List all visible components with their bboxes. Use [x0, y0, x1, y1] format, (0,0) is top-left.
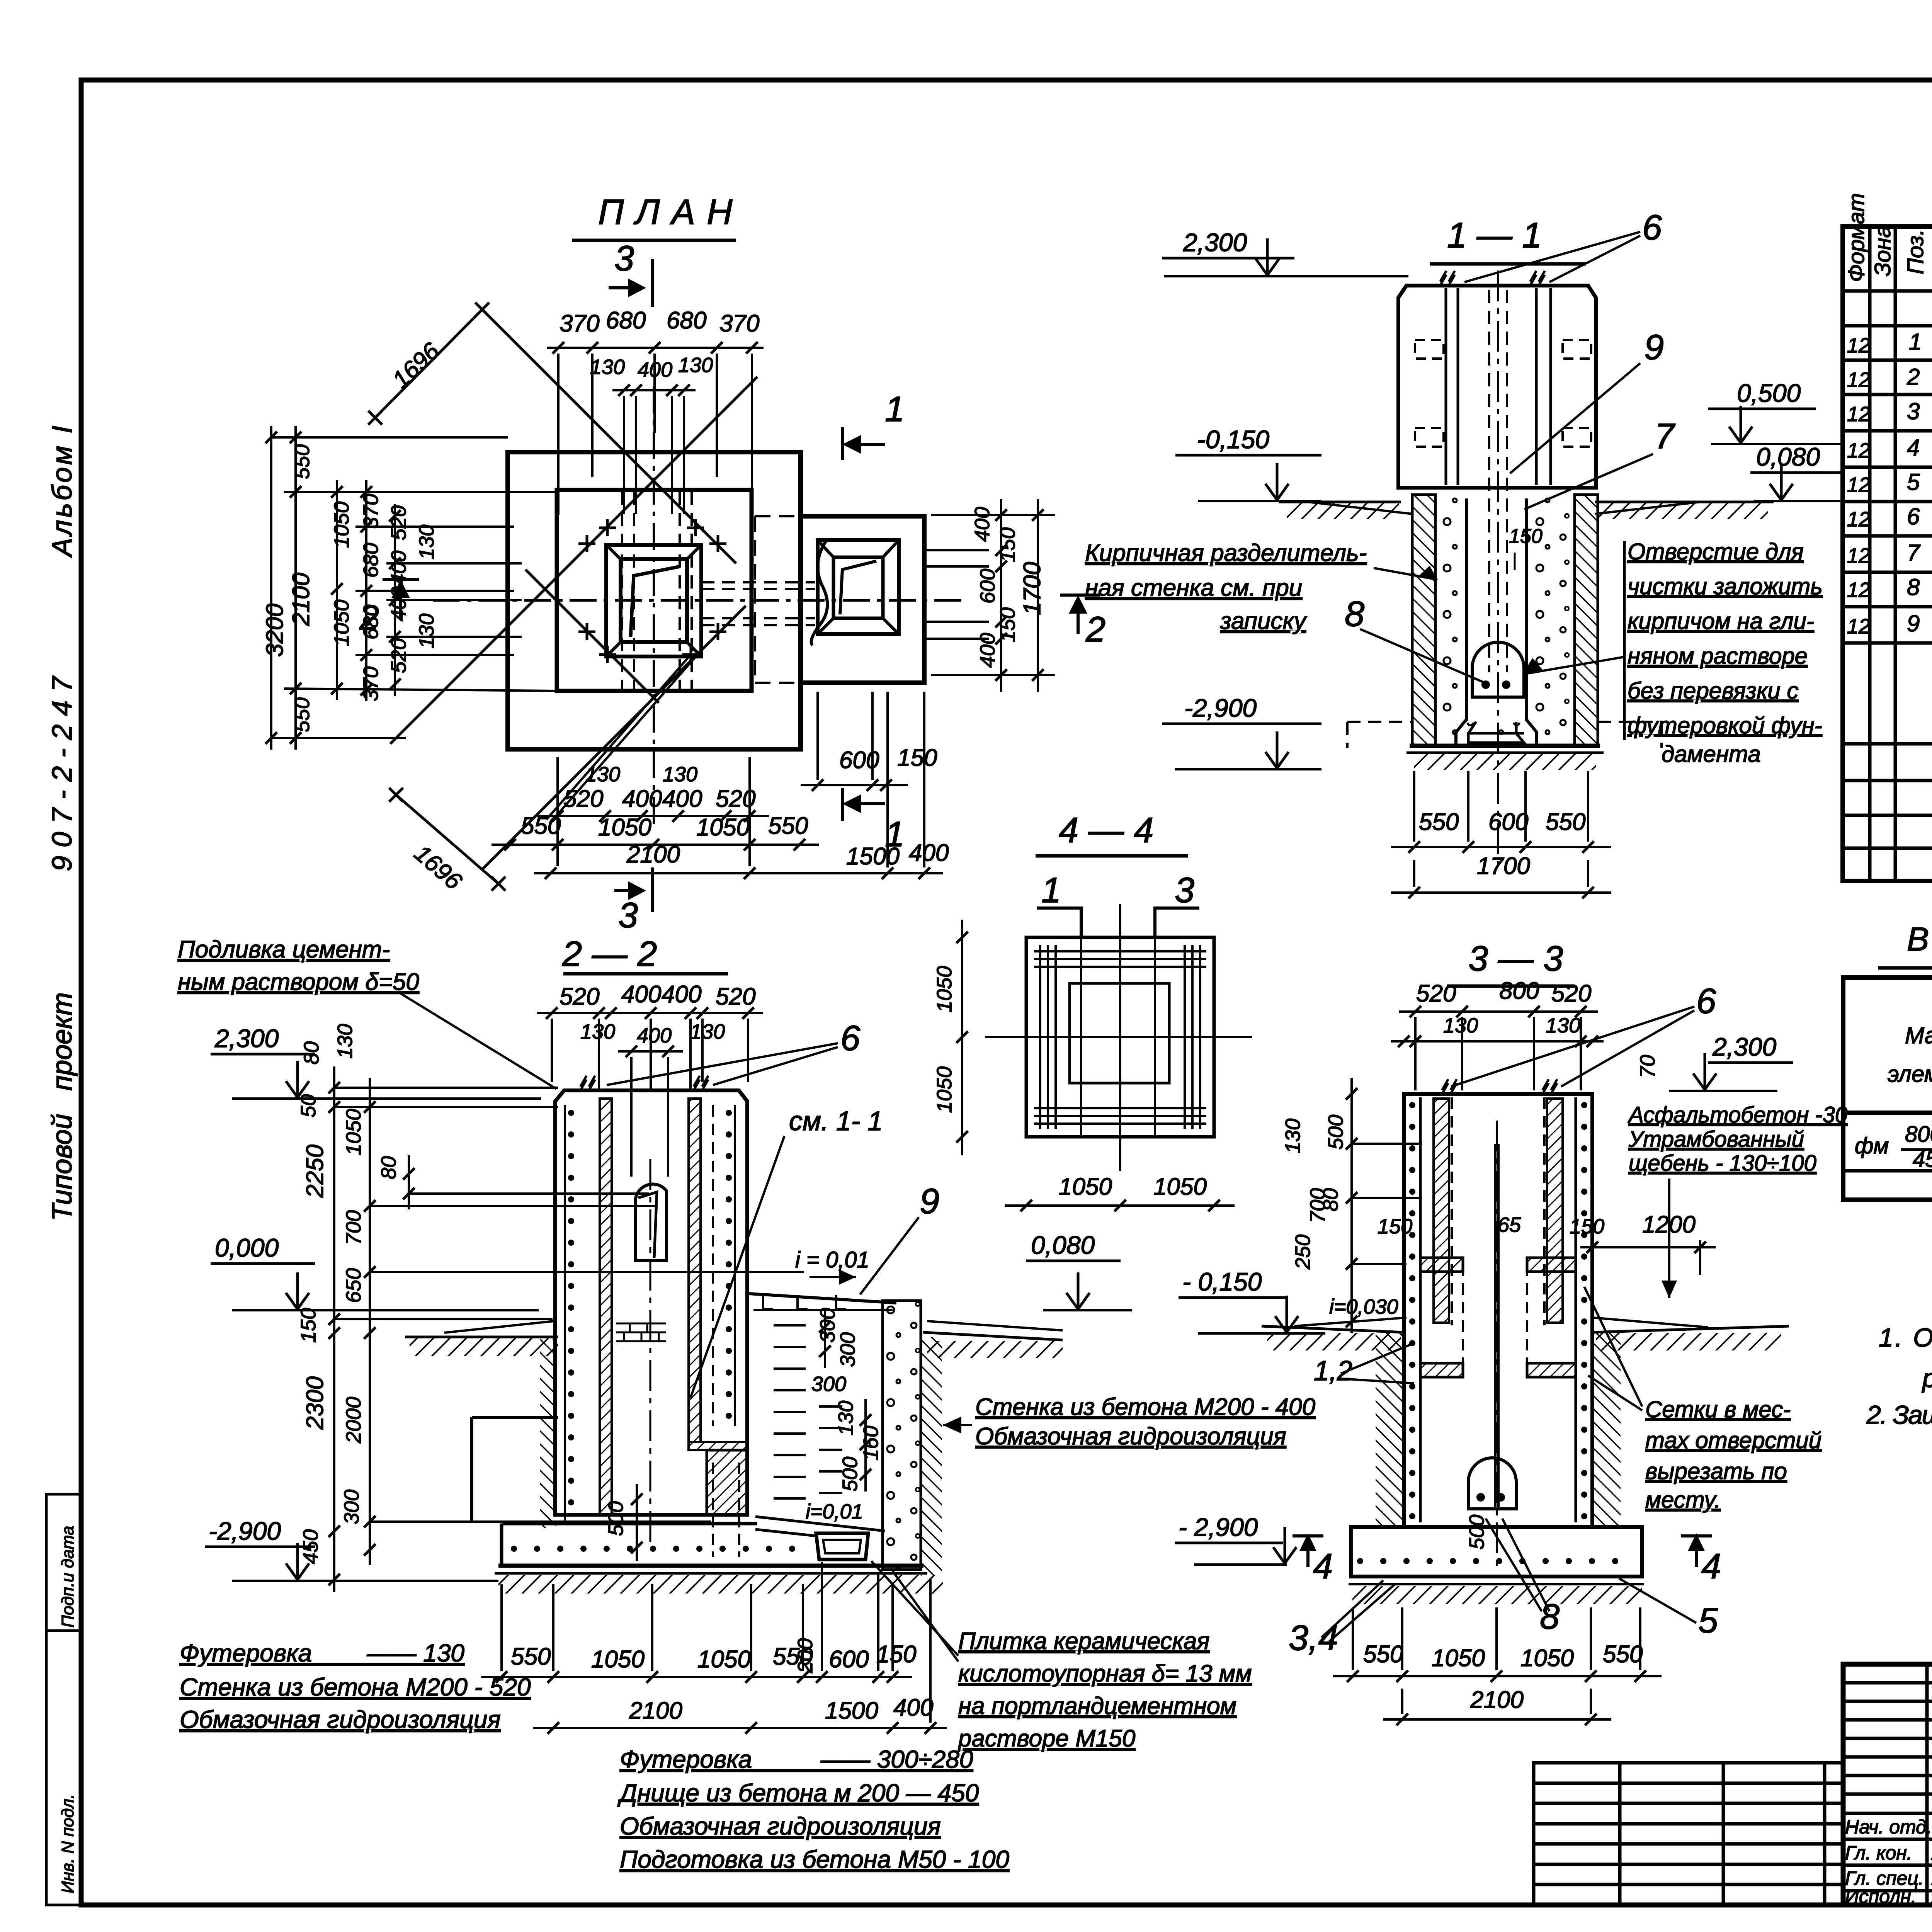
svg-text:12: 12 [1847, 439, 1870, 462]
svg-text:2 — 2: 2 — 2 [562, 934, 657, 974]
svg-text:3: 3 [1175, 871, 1194, 910]
svg-text:550: 550 [1419, 809, 1459, 835]
svg-text:1: 1 [885, 389, 905, 429]
svg-text:680: 680 [359, 605, 383, 639]
shaft walls [1465, 498, 1468, 721]
svg-text:300: 300 [811, 1372, 846, 1396]
svg-text:Отверстие для: Отверстие для [1628, 539, 1804, 565]
svg-text:130: 130 [678, 354, 713, 377]
left rebar curtain [564, 1105, 566, 1520]
svg-text:записку: записку [1220, 608, 1308, 634]
svg-text:150: 150 [297, 1308, 320, 1343]
svg-text:1: 1 [1909, 329, 1922, 355]
svg-text:150: 150 [1378, 1215, 1412, 1238]
svg-text:150: 150 [1509, 525, 1543, 548]
svg-text:на портландцементном: на портландцементном [958, 1693, 1236, 1719]
svg-text:130: 130 [663, 763, 697, 786]
svg-text:550: 550 [291, 697, 314, 732]
svg-text:Асфальтобетон -30: Асфальтобетон -30 [1628, 1102, 1847, 1128]
svg-text:вырезать по: вырезать по [1645, 1458, 1787, 1484]
svg-text:2300: 2300 [302, 1376, 328, 1430]
brick courses [616, 1323, 666, 1325]
svg-text:Формат: Формат [1844, 193, 1869, 282]
svg-text:Обмазочная гидроизоляция: Обмазочная гидроизоляция [975, 1423, 1286, 1450]
right mid text block [975, 1394, 1315, 1450]
svg-text:2,300: 2,300 [214, 1024, 279, 1053]
svg-text:600: 600 [829, 1646, 869, 1673]
svg-text:520: 520 [563, 786, 603, 812]
tile text block with leaders [957, 1628, 1252, 1752]
svg-text:см. 1- 1: см. 1- 1 [789, 1106, 883, 1136]
svg-text:400: 400 [662, 981, 701, 1008]
svg-text:кислотоупорная δ= 13 мм: кислотоупорная δ= 13 мм [958, 1660, 1252, 1687]
section 1-1 [1085, 208, 1847, 898]
svg-text:6: 6 [1696, 981, 1716, 1021]
svg-text:800: 800 [1499, 978, 1539, 1004]
centerline horizontal [433, 599, 966, 602]
svg-text:0,080: 0,080 [1031, 1231, 1095, 1259]
svg-text:400: 400 [971, 507, 994, 542]
svg-text:7: 7 [1907, 540, 1921, 566]
svg-text:2. Защитный слой бетона пр: 2. Защитный слой бетона принять 35 мм. [1866, 1400, 1932, 1430]
arch shield [1468, 1458, 1516, 1509]
view 4-4 [933, 811, 1252, 1211]
svg-text:1200: 1200 [1642, 1211, 1696, 1238]
mesh square [1026, 937, 1214, 1137]
svg-text:8: 8 [1907, 574, 1920, 600]
svg-text:130: 130 [415, 614, 438, 648]
svg-text:Типовой проект: Типовой проект [47, 992, 78, 1221]
extension pit [818, 540, 899, 634]
right lining hatch band [689, 1099, 701, 1442]
slab [502, 1522, 757, 1526]
svg-text:i=0,01: i=0,01 [806, 1500, 863, 1523]
svg-text:400: 400 [637, 1024, 672, 1047]
column above ground [1398, 286, 1596, 488]
svg-text:1: 1 [1041, 871, 1061, 910]
svg-text:3: 3 [618, 896, 638, 935]
steel table data row [1855, 1122, 1932, 1172]
diagonal construction lines around pit [482, 310, 736, 563]
svg-text:щебень - 130÷100: щебень - 130÷100 [1629, 1151, 1816, 1176]
svg-text:700: 700 [1306, 1188, 1329, 1223]
svg-text:500: 500 [1324, 1115, 1347, 1150]
column body [555, 1090, 747, 1515]
centerline vertical [653, 386, 655, 831]
svg-text:150: 150 [1570, 1215, 1604, 1238]
parts list table [1843, 226, 1932, 881]
svg-text:12: 12 [1847, 578, 1870, 602]
svg-text:2,300: 2,300 [1183, 228, 1247, 257]
svg-text:Зона: Зона [1870, 225, 1895, 276]
svg-text:1 — 1: 1 — 1 [1447, 216, 1542, 255]
svg-text:3200: 3200 [262, 604, 288, 657]
bottom-left stamp cells [46, 1494, 81, 1905]
svg-text:- 0,150: - 0,150 [1182, 1267, 1262, 1296]
PLAN view [262, 192, 1105, 935]
steel shield arch [1472, 642, 1524, 697]
footing [1351, 1527, 1642, 1577]
svg-text:Марка: Марка [1905, 1022, 1932, 1048]
apron concrete strip [883, 1301, 921, 1570]
slab bottom [1410, 744, 1600, 748]
svg-text:160: 160 [859, 1426, 883, 1461]
svg-text:70: 70 [1636, 1055, 1659, 1078]
svg-text:1050: 1050 [330, 502, 353, 548]
svg-text:200: 200 [794, 1638, 817, 1673]
trench wall hatch left of column [540, 1339, 556, 1528]
svg-text:4: 4 [1701, 1547, 1721, 1586]
signature rows [1845, 1816, 1932, 1907]
svg-text:130: 130 [690, 1020, 725, 1043]
svg-text:2: 2 [1085, 610, 1105, 649]
svg-text:Футеровка —— 300÷280: Футеровка —— 300÷280 [620, 1745, 973, 1773]
svg-text:130: 130 [415, 525, 438, 560]
inner wall lines [1445, 288, 1447, 485]
svg-text:i = 0,01: i = 0,01 [795, 1247, 869, 1272]
vault opening [636, 1184, 667, 1260]
svg-text:8: 8 [1540, 1597, 1560, 1636]
flue top formwork [749, 1294, 896, 1303]
svg-text:Выборка стали на элемент: Выборка стали на элемент , кг [1907, 921, 1932, 958]
svg-text:растворе М150: растворе М150 [957, 1725, 1135, 1752]
svg-text:1050: 1050 [696, 814, 750, 841]
svg-text:12: 12 [1847, 368, 1870, 391]
svg-text:4: 4 [1313, 1547, 1333, 1586]
svg-text:12: 12 [1847, 403, 1870, 426]
svg-text:Альбом I: Альбом I [47, 423, 78, 558]
svg-text:4: 4 [1907, 435, 1920, 461]
right text block cleaning hole [1628, 539, 1823, 767]
svg-text:Исполн.: Исполн. [1845, 1886, 1917, 1907]
svg-text:130: 130 [834, 1401, 857, 1435]
svg-text:550: 550 [521, 813, 561, 839]
svg-text:650: 650 [342, 1268, 365, 1303]
svg-text:Инв. N подл.: Инв. N подл. [58, 1794, 77, 1893]
svg-text:Днище из бетона м 200 — 450: Днище из бетона м 200 — 450 [617, 1779, 979, 1807]
svg-text:550: 550 [511, 1643, 551, 1670]
interior walls [1419, 1097, 1422, 1522]
svg-text:1050: 1050 [1432, 1645, 1485, 1672]
svg-text:няном растворе: няном растворе [1628, 643, 1808, 669]
svg-text:600: 600 [976, 569, 999, 604]
svg-text:700: 700 [342, 1210, 365, 1245]
svg-text:5: 5 [1907, 469, 1920, 495]
outlet box [816, 1533, 868, 1560]
svg-text:520: 520 [1416, 980, 1456, 1007]
dashed pit extents right [1598, 721, 1662, 723]
section 2-2 [178, 934, 1315, 1873]
bottom channel slopes [755, 1517, 885, 1531]
svg-text:ПЛАН: ПЛАН [598, 192, 744, 232]
left revision strip of title block [1534, 1763, 1843, 1905]
svg-text:6: 6 [1907, 503, 1920, 529]
svg-text:3: 3 [614, 239, 634, 278]
svg-text:Подливка цемент-: Подливка цемент- [178, 936, 390, 963]
leader double line [546, 655, 691, 820]
svg-text:футеровкой фун-: футеровкой фун- [1628, 713, 1822, 738]
svg-text:520: 520 [716, 983, 755, 1010]
inner wall step [689, 1442, 747, 1450]
ground lines [1279, 501, 1401, 503]
svg-text:Гл. кон.: Гл. кон. [1845, 1842, 1912, 1864]
svg-text:Утрамбованный: Утрамбованный [1628, 1127, 1804, 1152]
svg-text:2: 2 [1906, 364, 1920, 390]
svg-text:элемента: элемента [1888, 1061, 1932, 1087]
svg-text:Футеровка —— 130: Футеровка —— 130 [180, 1639, 464, 1667]
svg-text:тах отверстий: тах отверстий [1645, 1427, 1821, 1453]
title block [1843, 1664, 1932, 1905]
svg-text:1050: 1050 [933, 966, 956, 1012]
wall of flue left (step) [472, 1416, 558, 1419]
svg-text:без перевязки с: без перевязки с [1628, 678, 1798, 704]
svg-text:Подп.и дата: Подп.и дата [58, 1526, 77, 1628]
svg-text:2100: 2100 [629, 1697, 682, 1724]
svg-text:1050: 1050 [933, 1066, 956, 1113]
svg-text:130: 130 [1281, 1119, 1304, 1153]
svg-text:1500: 1500 [825, 1697, 878, 1724]
svg-text:8: 8 [1345, 594, 1364, 634]
svg-text:Сетки в мес-: Сетки в мес- [1645, 1396, 1791, 1422]
lining hatch left band [600, 1099, 612, 1514]
central pit outer [606, 545, 701, 656]
svg-text:Обмазочная гидроизоляция: Обмазочная гидроизоляция [620, 1812, 941, 1840]
svg-text:Стенка из бетона М200 - 400: Стенка из бетона М200 - 400 [975, 1394, 1315, 1420]
svg-text:чистки заложить: чистки заложить [1628, 573, 1823, 599]
svg-text:3,4: 3,4 [1289, 1618, 1338, 1658]
svg-text:-2,900: -2,900 [1184, 694, 1257, 722]
svg-text:450: 450 [299, 1529, 322, 1564]
svg-text:907-2-247: 907-2-247 [47, 668, 78, 871]
grids text [1645, 1396, 1821, 1513]
svg-text:130: 130 [1546, 1014, 1580, 1037]
svg-text:работ см. л. КЖ -1 и К: работ см. л. КЖ -1 и КЖ - 2. [1922, 1364, 1932, 1393]
trench walls hatch [1376, 1332, 1404, 1527]
svg-text:550: 550 [1363, 1641, 1403, 1668]
revision grid columns [1925, 1664, 1929, 1905]
svg-text:520: 520 [1551, 980, 1591, 1007]
svg-text:0,000: 0,000 [215, 1233, 279, 1262]
svg-text:1500: 1500 [846, 843, 900, 870]
svg-text:400: 400 [893, 1694, 933, 1721]
svg-text:2100: 2100 [288, 573, 315, 626]
svg-text:80: 80 [300, 1041, 323, 1065]
svg-text:1050: 1050 [598, 814, 651, 841]
svg-text:12: 12 [1847, 544, 1870, 567]
excavation outline 3200x3200 [508, 452, 801, 749]
svg-text:2,300: 2,300 [1712, 1032, 1776, 1061]
svg-text:500: 500 [604, 1501, 628, 1536]
svg-text:550: 550 [768, 813, 808, 839]
svg-text:ная стенка см. при: ная стенка см. при [1085, 575, 1302, 601]
svg-text:50: 50 [297, 1094, 320, 1117]
right wall rebar [734, 1105, 736, 1426]
svg-text:1700: 1700 [1019, 562, 1046, 615]
svg-text:Поз.: Поз. [1903, 229, 1928, 274]
svg-text:500: 500 [838, 1457, 862, 1492]
svg-text:5: 5 [1698, 1601, 1718, 1640]
ground left of trench [405, 1336, 558, 1338]
svg-text:2250: 2250 [302, 1145, 328, 1198]
svg-text:1050: 1050 [330, 600, 353, 646]
svg-text:2100: 2100 [626, 841, 680, 868]
svg-text:130: 130 [1443, 1014, 1478, 1037]
svg-text:0,500: 0,500 [1737, 379, 1801, 407]
svg-text:Стенка из бетона М200 - 520: Стенка из бетона М200 - 520 [180, 1673, 531, 1701]
rebar sticks dashed [712, 1463, 714, 1557]
svg-text:фм: фм [1855, 1133, 1889, 1158]
svg-text:3 — 3: 3 — 3 [1468, 939, 1563, 978]
svg-text:1050: 1050 [591, 1646, 645, 1673]
centerline [650, 1159, 651, 1542]
svg-text:12: 12 [1847, 334, 1870, 357]
svg-text:Кирпичная разделитель-: Кирпичная разделитель- [1085, 540, 1367, 566]
svg-text:680: 680 [606, 307, 646, 334]
break wave line [811, 540, 828, 645]
svg-text:1. Общие примечания и пр: 1. Общие примечания и правила производст… [1879, 1323, 1932, 1352]
asphalt text [1628, 1102, 1847, 1176]
svg-text:месту.: месту. [1645, 1487, 1721, 1513]
svg-text:680: 680 [667, 307, 706, 334]
steel selection table [1843, 978, 1932, 1200]
svg-text:кирпичом на гли-: кирпичом на гли- [1628, 608, 1814, 634]
svg-text:i=0,030: i=0,030 [1329, 1295, 1398, 1318]
diagonal dim 1696 lower [396, 795, 498, 884]
pit walls hatched [1412, 495, 1435, 746]
left bottom text block [180, 1639, 531, 1733]
svg-text:800: 800 [1905, 1122, 1932, 1147]
ground right [923, 1332, 1063, 1340]
svg-text:400: 400 [622, 786, 662, 812]
svg-text:- 2,900: - 2,900 [1179, 1513, 1258, 1541]
binding margin line [45, 1494, 48, 1905]
svg-text:150: 150 [897, 745, 937, 771]
column [1404, 1094, 1592, 1527]
svg-text:Обмазочная гидроизоляция: Обмазочная гидроизоляция [180, 1706, 501, 1733]
revision grid rows [1843, 1681, 1932, 1685]
hidden shaft walls dashed [621, 492, 623, 691]
svg-text:130: 130 [590, 355, 625, 379]
svg-text:300: 300 [836, 1332, 859, 1367]
flue duct extension outline [801, 516, 924, 683]
left margin vertical labels [47, 423, 78, 1221]
svg-text:150: 150 [996, 527, 1019, 562]
section 3-3 [1175, 939, 1847, 1725]
central rod [1494, 1144, 1497, 1507]
flue void ladder dashes [774, 1324, 806, 1327]
svg-text:Плитка керамическая: Плитка керамическая [958, 1628, 1209, 1655]
section 4 arrows [1306, 1536, 1310, 1567]
svg-text:500: 500 [1465, 1515, 1488, 1549]
svg-text:1050: 1050 [1153, 1173, 1207, 1200]
notes [1866, 1323, 1932, 1430]
svg-text:2100: 2100 [1470, 1687, 1524, 1713]
svg-text:680: 680 [359, 543, 383, 578]
hidden flue dashed [701, 581, 815, 583]
svg-text:130: 130 [333, 1024, 357, 1059]
svg-text:6: 6 [840, 1019, 861, 1058]
corner cross marks [578, 543, 595, 545]
svg-text:400: 400 [662, 786, 702, 812]
svg-text:1700: 1700 [1477, 853, 1530, 879]
svg-text:Нач. отд.: Нач. отд. [1845, 1816, 1932, 1838]
svg-text:7: 7 [1655, 417, 1675, 456]
svg-text:600: 600 [1488, 809, 1528, 835]
svg-text:370: 370 [719, 310, 759, 337]
svg-text:80: 80 [377, 1156, 400, 1179]
svg-text:400: 400 [909, 840, 949, 866]
mid ledges [1420, 1258, 1463, 1272]
svg-text:1050: 1050 [1520, 1645, 1574, 1672]
svg-text:150: 150 [876, 1641, 916, 1668]
svg-text:550: 550 [1603, 1641, 1643, 1668]
svg-text:400: 400 [638, 358, 672, 381]
central pit inner [621, 559, 687, 642]
diagonal dim 1696 upper [375, 310, 482, 418]
svg-text:ным раствором δ=50: ным раствором δ=50 [178, 969, 419, 995]
bottom center text block [617, 1745, 1009, 1873]
svg-text:9: 9 [1907, 611, 1920, 636]
svg-text:370: 370 [560, 310, 599, 337]
svg-text:Подготовка из бетона М50 - 100: Подготовка из бетона М50 - 100 [620, 1845, 1009, 1873]
svg-text:-2,900: -2,900 [209, 1517, 281, 1545]
svg-text:550: 550 [1546, 809, 1585, 835]
svg-text:4 — 4: 4 — 4 [1059, 811, 1153, 850]
bottom flare [1456, 719, 1466, 746]
svg-text:-0,150: -0,150 [1197, 425, 1269, 454]
svg-text:550: 550 [291, 444, 314, 479]
svg-text:300: 300 [340, 1490, 363, 1524]
svg-text:1050: 1050 [342, 1109, 365, 1155]
svg-text:400: 400 [621, 981, 661, 1008]
svg-text:6: 6 [1642, 208, 1662, 247]
svg-text:250: 250 [1291, 1235, 1315, 1270]
svg-text:1050: 1050 [1059, 1173, 1112, 1200]
svg-text:1050: 1050 [697, 1646, 751, 1673]
embedded parts dashed [1415, 340, 1444, 359]
svg-text:130: 130 [585, 763, 620, 786]
svg-text:9: 9 [920, 1182, 939, 1221]
svg-text:2000: 2000 [342, 1397, 365, 1444]
trench wall hatch right [921, 1337, 942, 1576]
foundation outline 2100x2100 [557, 490, 752, 691]
svg-text:12: 12 [1847, 473, 1870, 497]
svg-text:12: 12 [1847, 508, 1870, 531]
ground [1262, 1326, 1404, 1332]
svg-text:65: 65 [1498, 1213, 1521, 1236]
svg-text:12: 12 [1847, 615, 1870, 638]
concrete fill with aggregate [1435, 497, 1466, 746]
svg-text:9: 9 [1644, 328, 1664, 367]
svg-text:3: 3 [1907, 398, 1920, 424]
svg-text:0,080: 0,080 [1756, 442, 1820, 471]
svg-text:дамента: дамента [1662, 741, 1761, 767]
left text block brick wall [1085, 540, 1367, 634]
central channel dashed [1488, 290, 1490, 672]
svg-text:520: 520 [560, 983, 599, 1010]
